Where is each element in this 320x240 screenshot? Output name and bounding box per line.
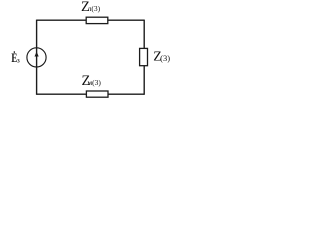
resistor Z(3): right load impedance box: [140, 48, 148, 65]
source E3: circle of ideal EMF source: [27, 48, 46, 67]
svg-text:Zл(3): Zл(3): [81, 0, 101, 15]
wire: left vertical branch A to D (passes through source circle as arrow shaft): [36, 20, 38, 95]
resistor Zл(3): top line-wire impedance box: [86, 17, 108, 23]
wire: bottom rail from node D (bottom-left) to node C (bottom-right): [37, 93, 145, 95]
wire: right vertical branch B to C: [143, 20, 145, 95]
resistor Zм(3): bottom neutral-wire impedance box: [86, 91, 108, 97]
svg-text:Zм(3): Zм(3): [82, 73, 102, 89]
svg-text:3: 3: [17, 59, 20, 65]
source E3 arrowhead (points up): [35, 52, 39, 57]
wire: top rail from node A (top-left) to node B (top-right): [37, 19, 145, 21]
svg-text:Z(3): Z(3): [153, 50, 170, 65]
